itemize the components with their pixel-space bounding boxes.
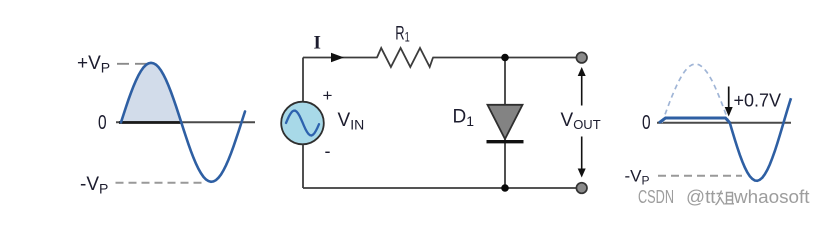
svg-text:R1: R1 bbox=[395, 24, 410, 45]
Vout arrow upper bbox=[581, 75, 583, 106]
+0.7V pointer arrow bbox=[728, 87, 730, 109]
svg-text:-VP: -VP bbox=[625, 167, 650, 188]
+Vp level dashed tick bbox=[117, 63, 148, 65]
junction node top bbox=[501, 54, 509, 62]
wire: bottom horizontal bbox=[303, 187, 582, 189]
svg-text:@tt: @tt bbox=[686, 186, 716, 207]
svg-text:0: 0 bbox=[642, 112, 651, 134]
svg-text:+: + bbox=[323, 86, 333, 105]
svg-text:-: - bbox=[325, 141, 331, 161]
input sine curve bbox=[121, 63, 245, 182]
watermark CJK glyph (drawn) bbox=[716, 191, 735, 206]
svg-text:D1: D1 bbox=[453, 107, 475, 130]
output terminal bottom bbox=[576, 183, 587, 194]
junction node bottom bbox=[501, 184, 509, 192]
AC source V_IN circle bbox=[281, 102, 324, 145]
AC source sine symbol bbox=[286, 111, 319, 136]
svg-text:CSDN: CSDN bbox=[638, 186, 674, 207]
diode D1 triangle bbox=[488, 105, 523, 139]
input axis dark segment under hump bbox=[119, 121, 182, 124]
resistor R1 bbox=[377, 48, 433, 67]
-Vp level dashed line (input) bbox=[116, 182, 206, 184]
Vout arrow lower bbox=[581, 137, 583, 170]
wire: top horizontal left of R1 bbox=[303, 57, 378, 59]
input sine positive-half shaded fill bbox=[121, 63, 181, 123]
wire: source bottom vertical bbox=[302, 145, 304, 189]
svg-text:VOUT: VOUT bbox=[561, 110, 601, 132]
svg-text:whaosoft: whaosoft bbox=[733, 186, 810, 207]
output zero axis bbox=[657, 122, 791, 124]
svg-text:+0.7V: +0.7V bbox=[734, 91, 782, 111]
svg-text:-VP: -VP bbox=[80, 174, 108, 197]
svg-text:+VP: +VP bbox=[77, 53, 110, 76]
output negative half sine bbox=[730, 98, 791, 181]
wire: top horizontal right of R1 bbox=[433, 57, 583, 59]
svg-text:VIN: VIN bbox=[338, 110, 365, 133]
clipped input dashed hump bbox=[662, 64, 729, 123]
svg-text:I: I bbox=[314, 33, 321, 54]
input zero axis bbox=[116, 121, 255, 123]
current direction arrowhead bbox=[331, 53, 344, 63]
diode D1 cathode bar bbox=[487, 140, 524, 143]
output clipped flat level (+0.7V) bbox=[659, 118, 730, 123]
output terminal top bbox=[576, 52, 587, 63]
svg-text:0: 0 bbox=[98, 112, 107, 134]
wire: source top vertical bbox=[302, 58, 304, 103]
-Vp level dashed line (output) bbox=[658, 175, 742, 177]
wire: diode branch vertical bbox=[504, 58, 506, 189]
